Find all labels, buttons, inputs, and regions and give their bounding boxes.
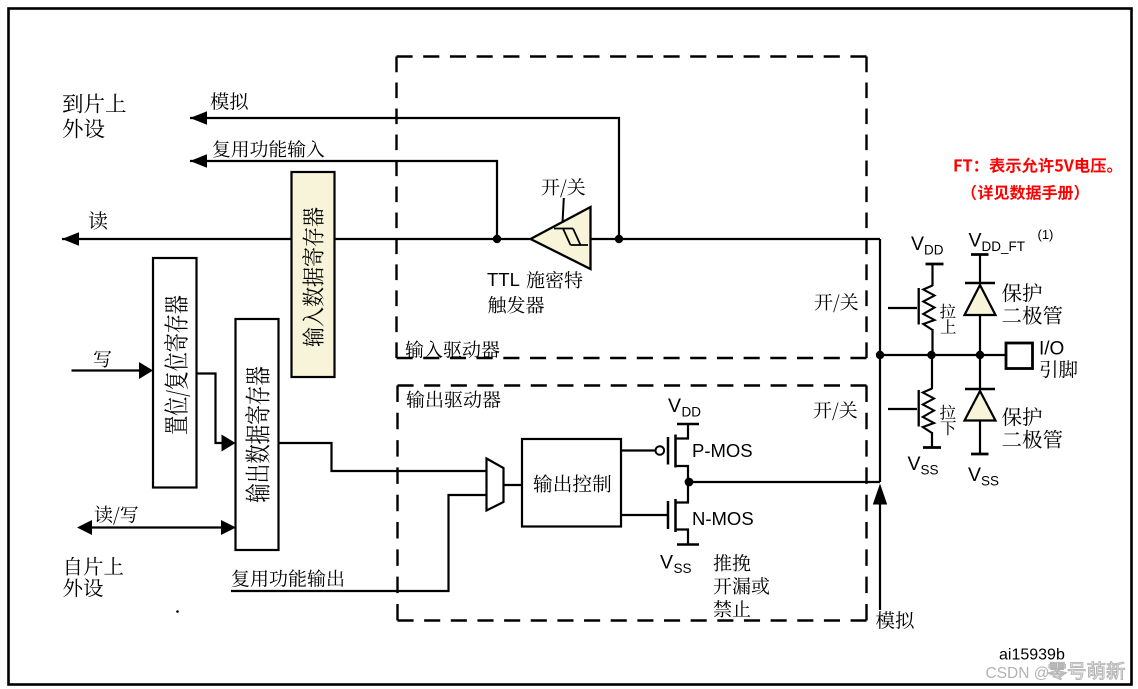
svg-text:V: V <box>908 453 921 475</box>
wire: schmitt on/off control stub <box>563 198 564 223</box>
svg-text:ai15939b: ai15939b <box>999 647 1065 664</box>
red note line 2: see datasheet <box>972 185 1079 200</box>
label: 自片上外设 (from on-chip peripherals) <box>63 557 123 597</box>
node: I/O line left junction <box>876 351 884 359</box>
output driver dashed box (输出驱动器) <box>398 386 867 621</box>
mux (output source select) <box>487 459 504 511</box>
transistor N-MOS symbol <box>668 482 699 545</box>
power bar VDD (pull-up) <box>926 263 944 266</box>
wire: read/write bus (double arrow) <box>77 520 236 535</box>
svg-text:V: V <box>668 395 681 417</box>
input driver dashed box (输入驱动器) <box>397 57 867 359</box>
node: diode junction <box>976 351 984 359</box>
node: push-pull output junction <box>685 478 694 487</box>
label: 模拟 (analog, top) <box>211 92 248 110</box>
label: 模拟 (bottom) <box>876 611 914 629</box>
label: VDD (pull-up) <box>911 233 944 258</box>
svg-text:I/O: I/O <box>1039 339 1064 360</box>
label: 复用功能输出 <box>232 569 343 587</box>
wire: alternate function output (bottom) to mux <box>231 495 487 591</box>
wire: output control to P-MOS gate <box>621 449 656 451</box>
label: 拉下 <box>940 405 956 436</box>
label: N-MOS <box>692 508 754 529</box>
label: TTL 施密特 / 触发器 <box>487 269 582 314</box>
protection diode D1 (to VDD_FT) <box>965 255 996 356</box>
svg-text:(1): (1) <box>1038 227 1054 242</box>
power bar VSS (diode) <box>971 453 989 456</box>
wire: output control to N-MOS gate <box>621 514 668 516</box>
label: 写 (write) <box>94 351 111 368</box>
label: 保护二极管 (top) <box>1002 283 1062 325</box>
label: VSS (diode) <box>968 464 999 489</box>
label: VSS (pull-down) <box>908 453 939 478</box>
label: 保护二极管 (bottom) <box>1002 407 1062 449</box>
svg-text:V: V <box>968 464 981 486</box>
input data register box (输入数据寄存器, yellow) <box>292 172 335 377</box>
power bar VDD_FT <box>971 253 989 256</box>
svg-text:TTL: TTL <box>487 269 520 290</box>
svg-text:P-MOS: P-MOS <box>692 440 753 461</box>
label: 拉上 <box>940 304 956 334</box>
label: VDD_FT with note (1) <box>969 227 1054 254</box>
wire: alternate function input with left arrow <box>190 154 497 239</box>
watermark: CSDN @零号萌新 <box>986 662 1125 682</box>
wire: output data register to mux (stepped) <box>279 443 487 471</box>
wire: analog tap to ADC (top) with left arrow <box>190 111 619 239</box>
label: 读/写 <box>95 506 138 525</box>
label: 读 (read) <box>89 211 107 229</box>
I/O pin pad square <box>1006 343 1033 369</box>
wire: set/reset register to output data register <box>197 374 236 452</box>
label: 开/关 (schmitt) <box>542 178 585 197</box>
label: 开/关 (pull-up) <box>815 293 858 312</box>
schmitt trigger (TTL) triangle <box>531 207 591 269</box>
protection diode D2 (to VSS) <box>965 355 996 453</box>
svg-text:DD_FT: DD_FT <box>982 239 1026 254</box>
node: analog junction on read line <box>615 235 623 243</box>
svg-text:V: V <box>660 552 673 574</box>
svg-text:SS: SS <box>921 463 939 478</box>
label: 复用功能输入 <box>213 140 324 158</box>
red note: FT means 5V tolerant <box>954 157 1112 173</box>
svg-text:SS: SS <box>674 561 692 576</box>
label: 输出驱动器 <box>406 390 500 408</box>
power bar VSS (pull-down) <box>923 446 941 449</box>
svg-text:DD: DD <box>924 243 944 258</box>
output control block (输出控制) <box>522 439 621 527</box>
pull-down resistor with switch <box>888 355 934 447</box>
label: 推挽/开漏或/禁止 <box>714 554 770 617</box>
wire: read bus (y=239) from arrow to I/O column <box>62 232 880 246</box>
node: AF-input junction on read line <box>493 235 501 243</box>
label: VSS (N-MOS) <box>660 552 692 577</box>
figure id: ai15939b <box>999 647 1065 664</box>
svg-text:SS: SS <box>981 474 999 489</box>
node: pull junction <box>927 351 935 359</box>
svg-text:CSDN @: CSDN @ <box>986 665 1050 682</box>
label: 到片上外设 (to on-chip peripherals) <box>63 93 126 138</box>
label: 开/关 (pull-down) <box>814 401 857 420</box>
write strobe wire into set/reset register <box>72 362 154 379</box>
wire: MOS output to I/O column <box>689 481 880 483</box>
label: VDD (P-MOS) <box>668 395 701 420</box>
svg-text:V: V <box>911 233 924 255</box>
svg-text:N-MOS: N-MOS <box>692 508 754 529</box>
pull-up resistor with switch <box>888 264 935 355</box>
label: P-MOS <box>692 440 753 461</box>
wire: main vertical line to I/O (x=880) <box>879 239 881 482</box>
label: 输入驱动器 <box>405 340 499 358</box>
label: I/O 引脚 <box>1039 339 1077 379</box>
svg-text:V: V <box>969 230 982 252</box>
wire: I/O horizontal line <box>880 354 1005 356</box>
stray mark <box>176 610 179 613</box>
transistor P-MOS symbol <box>656 424 700 482</box>
svg-text:DD: DD <box>682 405 702 420</box>
wire: analog channel from pad (up arrow) <box>873 484 887 611</box>
wire: mux to output control <box>504 484 523 486</box>
bit set/reset register box (置位/复位寄存器) <box>153 258 197 488</box>
output data register box (输出数据寄存器) <box>236 319 279 550</box>
